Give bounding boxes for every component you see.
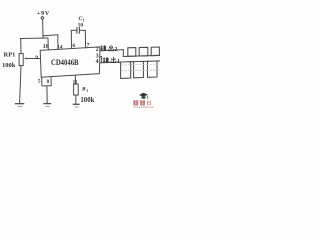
svg-text:16: 16 <box>43 44 49 50</box>
wire pins 5,8 to ground <box>42 75 80 107</box>
watermark tassel <box>146 95 148 99</box>
svg-text:14: 14 <box>57 44 63 50</box>
wire pin 11 <box>74 75 76 84</box>
svg-text:2: 2 <box>114 47 117 53</box>
dashed mid reference line <box>121 69 160 72</box>
label output 2 (Chinese 输出 2) <box>101 45 118 53</box>
wire +9V vertical drop <box>42 19 44 38</box>
svg-text:+9V: +9V <box>37 11 50 17</box>
svg-text:7: 7 <box>87 42 90 48</box>
wire left rail to RP1 and pin16 <box>21 37 48 40</box>
wire RP1 bottom to ground <box>20 66 21 104</box>
resistor R1 body <box>74 84 79 95</box>
svg-text:RP1: RP1 <box>4 52 16 59</box>
waveform output 1 (square wave B, inverted pulses) <box>121 61 160 78</box>
wire pin 4 output1 <box>100 61 121 64</box>
watermark red text <box>133 100 145 106</box>
svg-text:2: 2 <box>96 47 99 53</box>
svg-text:CD4046B: CD4046B <box>51 58 79 67</box>
op-amp/IC U1 CD4046B box <box>40 47 100 77</box>
svg-text:100k: 100k <box>80 97 94 104</box>
svg-text:4: 4 <box>96 59 99 65</box>
svg-text:1: 1 <box>86 89 88 93</box>
wire R1 to ground <box>75 95 77 104</box>
watermark logo graduation cap <box>133 93 154 107</box>
wire pin 16 drop <box>47 38 49 50</box>
ground (pins 5,8) <box>43 103 51 105</box>
svg-text:10: 10 <box>78 23 84 29</box>
RP1 wiper arrowhead <box>24 58 27 60</box>
svg-text:8: 8 <box>47 79 50 85</box>
wire pin 2 output2 <box>100 50 123 51</box>
capacitor C1 left leg (pin 6) <box>70 30 72 48</box>
ground (RP1) <box>16 103 24 105</box>
capacitor C1 <box>71 29 77 31</box>
svg-text:6: 6 <box>72 43 75 49</box>
label output 1 (Chinese 输出 1) <box>103 57 120 65</box>
potentiometer RP1 body <box>19 54 23 66</box>
waveform output 2 (square wave A) <box>123 47 160 57</box>
wire RP1 wiper from pin 9 <box>26 58 40 60</box>
watermark small caption <box>133 106 154 108</box>
ground (R1) <box>73 103 80 105</box>
svg-text:100k: 100k <box>2 62 16 69</box>
svg-text:9: 9 <box>35 55 38 61</box>
svg-text:5: 5 <box>38 78 41 84</box>
wire pin 14 branch <box>43 35 58 50</box>
wire pin 3 tie to pin 4 <box>100 57 102 63</box>
capacitor C1 right leg (pin 7) <box>84 30 86 48</box>
node +9V supply terminal <box>41 17 44 20</box>
wire RP1 top <box>20 39 22 54</box>
svg-text:1: 1 <box>117 59 120 65</box>
